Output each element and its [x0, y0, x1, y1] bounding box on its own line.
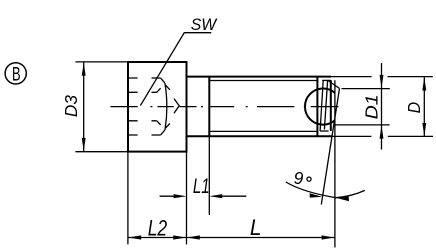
- D bottom extension line: [332, 135, 433, 137]
- svg-text:9: 9: [294, 168, 304, 188]
- thread minor diameter lines: [209, 81, 317, 132]
- sleeve crimp edge V3 (tilted): [324, 80, 327, 129]
- svg-text:D: D: [404, 102, 424, 114]
- L arrows: [187, 235, 335, 239]
- L1 dimension line left part: [160, 195, 178, 197]
- D dimension line: [423, 77, 425, 136]
- L1 arrows (outside pointing in): [174, 194, 223, 198]
- D1 bottom extension line: [335, 124, 389, 126]
- SW leader line: [140, 33, 211, 106]
- ball (flattened) outline: [305, 89, 335, 125]
- svg-text:L: L: [250, 215, 262, 240]
- svg-text:L1: L1: [193, 174, 210, 198]
- svg-text:L2: L2: [148, 215, 168, 240]
- hex socket hidden line bottom outer: [128, 130, 164, 135]
- 9 degree tilted flat face line: [321, 89, 339, 205]
- neck and thread outer outline: [187, 77, 332, 137]
- tilted cap top edge: [328, 81, 339, 89]
- sleeve right face V4: [330, 80, 332, 131]
- svg-text:D3: D3: [61, 95, 81, 117]
- hex socket hidden line top outer: [128, 78, 164, 83]
- hex socket cone ticks: [166, 85, 170, 128]
- flat face edge / vertical reference extension line: [334, 80, 336, 247]
- D arrows (inside pointing out): [422, 77, 426, 136]
- sleeve notch top: [322, 79, 331, 81]
- svg-text:B: B: [12, 64, 21, 85]
- svg-text:D1: D1: [362, 94, 382, 119]
- D top extension line: [331, 76, 433, 78]
- head outline (cylindrical head D3): [128, 62, 187, 152]
- thread start extension line down: [208, 136, 210, 215]
- L2 dimension line: [128, 237, 187, 239]
- D1 dimension line: [381, 63, 383, 150]
- L1 dimension line right part: [218, 195, 246, 197]
- sleeve notch bottom: [320, 130, 329, 132]
- L2 arrows: [128, 235, 186, 239]
- D3 bottom extension line: [75, 151, 128, 153]
- head left edge extension line down: [127, 152, 129, 245]
- hex socket drill cone tip: [174, 99, 179, 114]
- hex socket bottom arc: [165, 83, 167, 130]
- D3 arrows: [82, 62, 86, 151]
- 9 degree arc left part with arrow: [286, 182, 336, 198]
- L dimension line: [187, 237, 335, 239]
- thread start face: [208, 77, 210, 137]
- centerline (screw axis): [110, 106, 338, 108]
- D1 arrows (outside pointing in): [380, 75, 384, 139]
- D3 dimension line: [83, 62, 85, 152]
- hex socket hidden line bottom inner: [128, 121, 160, 125]
- D1 top extension line: [342, 88, 390, 90]
- view label circle B: [5, 63, 26, 86]
- sleeve crimp edge V2 (tilted): [320, 80, 323, 131]
- svg-text:SW: SW: [191, 15, 218, 34]
- 9 degree arc right part with arrow: [335, 190, 365, 197]
- body end face V1: [316, 77, 318, 137]
- head right edge extension line down: [186, 152, 188, 245]
- D3 top extension line: [75, 61, 128, 63]
- hex socket hidden line top inner: [128, 88, 160, 92]
